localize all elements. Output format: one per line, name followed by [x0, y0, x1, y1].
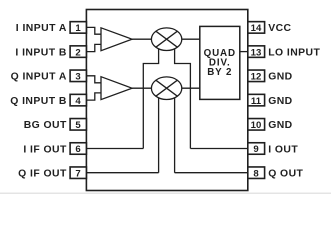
svg-text:BG OUT: BG OUT	[24, 120, 67, 131]
svg-text:Q IF OUT: Q IF OUT	[18, 169, 67, 180]
wire M1 outputs down (step)	[143, 49, 190, 149]
wire A1 output to mixer M1	[132, 38, 151, 40]
svg-text:6: 6	[75, 144, 80, 155]
svg-text:I INPUT B: I INPUT B	[15, 47, 66, 58]
svg-text:Q OUT: Q OUT	[268, 169, 303, 180]
wire pin8 Q OUT	[175, 172, 248, 174]
svg-text:10: 10	[251, 120, 262, 131]
svg-text:9: 9	[253, 144, 258, 155]
pin 8 box	[248, 167, 265, 179]
svg-text:VCC: VCC	[268, 23, 291, 34]
quad divider block U1	[200, 26, 240, 99]
svg-text:BY 2: BY 2	[207, 67, 232, 78]
svg-text:LO INPUT: LO INPUT	[268, 47, 320, 58]
pin 14 box	[248, 22, 265, 34]
wire pin6 I IF OUT	[86, 148, 143, 150]
wire pin4 to amp A2 input	[86, 93, 101, 100]
mixer M2 (Q)	[151, 77, 181, 100]
svg-text:11: 11	[251, 96, 262, 107]
wire M2 outputs down	[159, 97, 175, 173]
pin 7 box	[70, 167, 86, 179]
wire pin9 I OUT	[190, 148, 247, 150]
wire quad to M1	[182, 38, 200, 40]
op-amp A1 (I channel)	[101, 28, 132, 51]
wire pin3 to amp A2 input	[86, 76, 101, 83]
pin 2 box	[70, 46, 86, 58]
svg-text:I IF OUT: I IF OUT	[23, 144, 67, 155]
svg-text:7: 7	[75, 168, 80, 179]
wire quad to M2	[182, 87, 200, 89]
pin 5 box	[70, 119, 86, 131]
bottom hairline rule	[0, 192, 331, 194]
wire A2 output to mixer M2	[132, 87, 151, 89]
svg-text:Q INPUT B: Q INPUT B	[10, 96, 67, 107]
pin 3 box	[70, 70, 86, 82]
svg-text:13: 13	[251, 47, 262, 58]
svg-text:GND: GND	[268, 72, 292, 83]
pin 9 box	[248, 143, 265, 155]
pin 13 box	[248, 46, 265, 58]
wire pin7 Q IF OUT	[86, 172, 158, 174]
svg-text:4: 4	[75, 96, 81, 107]
IC outline	[86, 10, 247, 191]
wire quad to pin13 LO INPUT	[240, 51, 248, 53]
pin 4 box	[70, 94, 86, 106]
svg-text:2: 2	[75, 47, 80, 58]
svg-text:Q INPUT A: Q INPUT A	[11, 72, 67, 83]
svg-text:I OUT: I OUT	[268, 144, 298, 155]
svg-text:5: 5	[75, 120, 81, 131]
pin 10 box	[248, 119, 265, 131]
op-amp A2 (Q channel)	[101, 77, 132, 100]
svg-text:14: 14	[251, 23, 262, 34]
pin 1 box	[70, 22, 86, 34]
wire pin2 to amp A1 input	[86, 44, 101, 51]
pin 11 box	[248, 94, 265, 106]
svg-text:1: 1	[75, 23, 81, 34]
wire pin1 to amp A1 input	[86, 27, 101, 34]
svg-text:8: 8	[253, 168, 259, 179]
svg-text:GND: GND	[268, 120, 292, 131]
pin 6 box	[70, 143, 86, 155]
pin 12 box	[248, 70, 265, 82]
svg-text:12: 12	[251, 72, 262, 83]
svg-text:GND: GND	[268, 96, 292, 107]
svg-text:I INPUT A: I INPUT A	[16, 23, 67, 34]
mixer M1 (I)	[151, 28, 181, 51]
svg-text:3: 3	[75, 72, 80, 83]
